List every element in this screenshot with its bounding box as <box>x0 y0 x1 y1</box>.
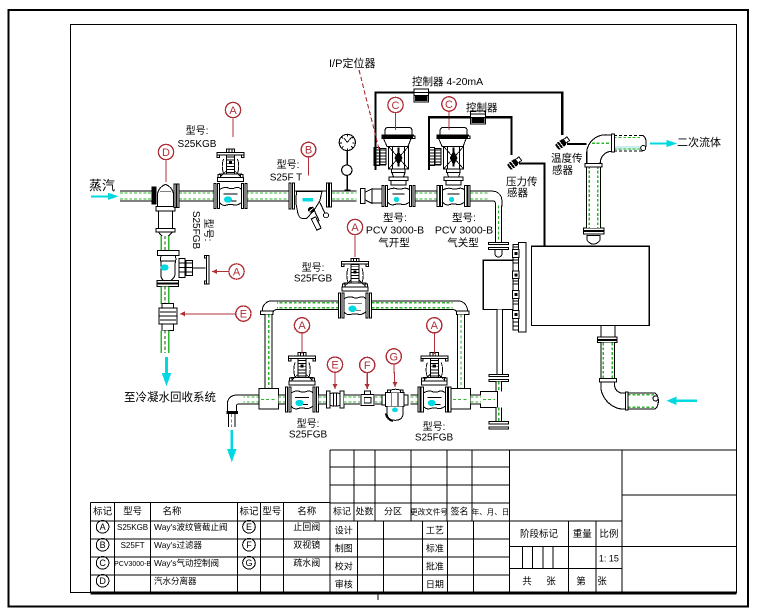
label 型号 S25FGB rotated <box>190 211 215 250</box>
wire main pipe segment 4 <box>332 191 357 201</box>
svg-text:控制器 4-20mA: 控制器 4-20mA <box>412 75 483 88</box>
svg-text:张: 张 <box>597 577 607 588</box>
svg-text:重量: 重量 <box>573 528 593 540</box>
wire lower line segment 2 <box>319 395 328 404</box>
condensate outlet arrow 1 <box>162 357 172 386</box>
svg-text:S25FGB: S25FGB <box>289 430 328 441</box>
riser neck into header <box>495 250 502 258</box>
wire main pipe segment 6 <box>471 191 493 201</box>
wire branch pipe below check valve <box>161 330 169 353</box>
elbow main line to riser <box>490 191 502 206</box>
svg-text:E: E <box>240 309 247 321</box>
wire bypass pipe left segment <box>275 301 339 310</box>
svg-text:汽水分离器: 汽水分离器 <box>154 576 197 586</box>
angle valve V2 bottom flange pair <box>157 281 179 287</box>
wire main pipe segment 2 <box>179 191 215 201</box>
pressure gauge G1 <box>339 134 355 191</box>
svg-text:双视镜: 双视镜 <box>293 539 320 550</box>
tag circle A bypass valve <box>347 219 362 234</box>
svg-text:日期: 日期 <box>426 580 444 590</box>
leader line G steam trap <box>392 364 397 387</box>
svg-text:S25FT: S25FT <box>121 541 145 550</box>
svg-text:感器: 感器 <box>552 164 573 177</box>
svg-text:年、月、日: 年、月、日 <box>472 507 510 517</box>
temperature sensor TS1 <box>555 136 571 151</box>
wire bypass left vertical pipe <box>265 315 272 389</box>
svg-text:A: A <box>351 222 359 234</box>
svg-text:标记: 标记 <box>239 506 259 518</box>
svg-text:PCV3000-B: PCV3000-B <box>114 561 151 568</box>
heat exchanger HX1 top nozzle flange <box>584 228 604 234</box>
tag circle G steam trap <box>386 349 401 364</box>
wire riser pipe upper <box>495 206 501 244</box>
wire main pipe segment 5 <box>415 191 438 201</box>
big elbow bend <box>585 135 613 167</box>
leader line A bypass valve <box>354 235 356 257</box>
riser tee junction <box>481 392 498 408</box>
svg-text:标记: 标记 <box>333 506 351 517</box>
secondary fluid outlet arrow <box>650 140 677 147</box>
svg-text:S25FGB: S25FGB <box>294 274 333 285</box>
wire lower line segment 4 <box>375 395 386 404</box>
leader line A lower valve right <box>433 333 435 354</box>
heat exchanger HX1 bottom nozzle flange <box>598 337 618 343</box>
svg-text:型号:: 型号: <box>202 219 215 242</box>
title block right section texts <box>520 528 619 588</box>
coupling E2 on lower line <box>326 391 343 408</box>
svg-text:名称: 名称 <box>162 506 182 518</box>
leader line A lower valve left <box>301 333 303 354</box>
heat exchanger HX1 top nozzle <box>587 235 600 244</box>
svg-text:标记: 标记 <box>93 506 113 518</box>
svg-text:型号:: 型号: <box>302 261 325 274</box>
svg-text:C: C <box>99 558 106 568</box>
wire temp sensor stub <box>567 143 587 145</box>
riser flange 2 <box>489 374 509 381</box>
wire HX bottom pipe <box>601 343 615 379</box>
svg-text:校对: 校对 <box>335 561 353 572</box>
title block parts rows <box>96 521 320 588</box>
leader line A main valve <box>232 118 234 137</box>
reducer R1 cone <box>361 189 383 204</box>
controller U1 box <box>414 89 429 102</box>
lower globe valve V6 (A) <box>286 353 319 413</box>
leader line C valve 1 <box>395 113 397 130</box>
wire big elbow vertical pipe <box>587 166 601 228</box>
leader line B strainer <box>308 157 310 176</box>
svg-text:型号: 型号 <box>123 507 142 518</box>
svg-text:A: A <box>298 320 306 332</box>
svg-text:PCV 3000-B: PCV 3000-B <box>366 225 424 237</box>
heat exchanger HX1 tube sheet <box>513 243 527 332</box>
tag circle A separator side valve <box>229 264 244 279</box>
svg-text:至冷凝水回收系统: 至冷凝水回收系统 <box>124 390 216 404</box>
svg-text:G: G <box>390 351 399 363</box>
svg-text:批准: 批准 <box>426 561 444 572</box>
heat exchanger HX1 bottom nozzle <box>601 325 615 337</box>
condensate outlet arrow 2 <box>227 430 237 462</box>
wire pressure sensor line to HX <box>519 164 545 246</box>
wire lower line segment 5 <box>411 395 419 404</box>
wire bypass right vertical pipe <box>458 315 465 389</box>
separator S1 body <box>156 184 175 236</box>
svg-text:1: 15: 1: 15 <box>599 554 619 564</box>
heat exchanger HX1 header box <box>483 260 513 309</box>
control valve CV2 (PCV3000-B air-close) <box>429 128 470 207</box>
wire signal line controller 2 <box>429 117 512 170</box>
angle valve V2 top flange <box>158 250 179 255</box>
leader line I/P positioner <box>359 70 380 151</box>
svg-text:第: 第 <box>576 576 586 588</box>
separator S1 inlet flange <box>151 187 156 205</box>
svg-text:D: D <box>99 576 106 586</box>
svg-text:B: B <box>100 540 106 550</box>
lower line tee left <box>259 389 278 409</box>
sight glass F1 on lower line <box>361 391 374 406</box>
svg-text:共: 共 <box>522 577 532 588</box>
svg-text:张: 张 <box>546 577 556 588</box>
svg-text:D: D <box>162 147 170 159</box>
wire HX bottom horizontal pipe <box>628 393 654 409</box>
leader line A side valve <box>212 269 229 274</box>
svg-text:阶段标记: 阶段标记 <box>520 528 559 540</box>
heat exchanger HX1 shell <box>531 246 649 325</box>
svg-text:设计: 设计 <box>335 525 353 536</box>
tag circle D <box>158 144 173 159</box>
wire branch pipe above check valve <box>161 286 169 304</box>
lower line tee right <box>451 389 470 409</box>
pressure sensor PS1 <box>507 156 523 171</box>
svg-text:型号:: 型号: <box>186 124 209 137</box>
tag circle C controller valve 2 <box>442 97 456 111</box>
wire lower line segment 0 <box>238 395 261 404</box>
controller U2 box <box>471 111 486 124</box>
wire bypass pipe right segment <box>372 301 455 310</box>
wire riser pipe green segment <box>496 382 501 392</box>
svg-text:型号:: 型号: <box>423 420 446 433</box>
HX bottom pipe socket bar <box>625 392 628 410</box>
wire condensate drop pipe 2 <box>228 414 235 427</box>
steam inlet arrow <box>91 193 119 200</box>
svg-text:型号:: 型号: <box>297 417 320 430</box>
lower globe valve V7 (A) <box>418 353 451 413</box>
svg-text:止回阀: 止回阀 <box>293 521 320 532</box>
wire main pipe segment 1 <box>120 191 152 201</box>
leader line F sight glass <box>365 373 370 389</box>
tag circle F sight glass <box>360 357 375 372</box>
svg-text:Way′s波纹管截止阀: Way′s波纹管截止阀 <box>154 522 228 532</box>
svg-text:Way′s过滤器: Way′s过滤器 <box>154 540 203 550</box>
svg-text:S25F T: S25F T <box>270 173 303 184</box>
bypass globe valve V5 (A) <box>339 258 372 318</box>
secondary fluid inlet arrow <box>667 397 698 405</box>
riser flange 1 <box>488 243 508 250</box>
svg-text:G: G <box>245 558 252 568</box>
svg-text:分区: 分区 <box>384 507 402 517</box>
tag circle A lower valve left <box>294 318 309 333</box>
globe valve V1 (A) on main line <box>214 149 247 209</box>
tag circle B strainer <box>301 142 316 157</box>
svg-text:气开型: 气开型 <box>378 236 410 249</box>
wire lower line segment 3 <box>344 395 360 404</box>
svg-text:比例: 比例 <box>599 528 618 540</box>
svg-text:签名: 签名 <box>450 506 468 517</box>
wire big elbow horizontal pipe <box>612 134 642 152</box>
svg-text:E: E <box>331 360 338 372</box>
svg-text:名称: 名称 <box>297 506 317 518</box>
svg-text:型号:: 型号: <box>452 211 476 224</box>
svg-text:A: A <box>431 320 439 332</box>
side handwheel valve V3 <box>179 256 209 284</box>
tag circle E coupling <box>327 357 342 372</box>
svg-text:A: A <box>100 522 106 532</box>
svg-text:控制器: 控制器 <box>466 101 498 114</box>
bypass right elbow collar <box>457 311 470 314</box>
svg-text:更改文件号: 更改文件号 <box>410 507 448 517</box>
bypass elbow left <box>262 301 277 313</box>
title block header texts <box>93 506 317 518</box>
tag circle A main valve <box>225 102 240 117</box>
svg-text:感器: 感器 <box>507 186 528 199</box>
svg-text:I/P定位器: I/P定位器 <box>329 56 375 70</box>
svg-text:F: F <box>364 360 371 372</box>
HX bottom elbow bend <box>599 379 625 410</box>
svg-text:标准: 标准 <box>426 543 444 554</box>
steam trap G1 <box>382 389 408 421</box>
big elbow pipe end cap <box>641 135 647 151</box>
leader line E check valve <box>180 311 236 316</box>
wire lower line segment 6 <box>471 395 481 404</box>
frame bottom center tick <box>377 593 379 600</box>
wire riser pipe mid <box>497 309 502 374</box>
wire lower line segment 1 <box>278 395 286 404</box>
wire branch pipe below separator <box>161 236 169 251</box>
svg-text:型号: 型号 <box>262 507 281 518</box>
svg-text:S25KGB: S25KGB <box>178 139 217 150</box>
svg-text:型号:: 型号: <box>383 211 407 224</box>
angle valve V2 body <box>160 256 176 281</box>
tag circle C controller valve 1 <box>388 97 403 112</box>
svg-text:S25KGB: S25KGB <box>117 523 148 532</box>
riser blind flange <box>489 422 509 429</box>
Y-strainer F1 flange left <box>289 183 294 209</box>
tag circle A lower valve right <box>427 318 442 333</box>
wire riser pipe lower stub <box>496 408 501 422</box>
svg-text:制图: 制图 <box>335 543 353 554</box>
svg-text:S25FGB: S25FGB <box>190 211 201 250</box>
svg-text:型号:: 型号: <box>277 158 300 171</box>
tag circle E check valve <box>236 306 251 321</box>
separator S1 outlet flange pair <box>174 184 179 208</box>
svg-text:工艺: 工艺 <box>426 526 444 536</box>
title block revision header texts <box>333 506 509 590</box>
svg-text:S25FGB: S25FGB <box>415 433 454 444</box>
svg-text:温度传: 温度传 <box>551 152 583 165</box>
Y-strainer F1 flange right <box>326 183 331 207</box>
svg-text:二次流体: 二次流体 <box>677 135 721 149</box>
title block parts table <box>91 450 737 593</box>
svg-text:审核: 审核 <box>335 579 353 590</box>
svg-text:气关型: 气关型 <box>447 236 479 249</box>
svg-text:处数: 处数 <box>355 506 373 517</box>
svg-text:B: B <box>305 145 312 157</box>
svg-text:疏水阀: 疏水阀 <box>293 557 320 568</box>
bypass left elbow collar <box>261 311 274 314</box>
control valve CV1 (PCV3000-B air-open) <box>374 128 415 207</box>
Y-strainer F1 body <box>295 191 329 230</box>
leader line C valve 2 <box>448 111 450 130</box>
wire main pipe segment 3 <box>246 191 290 201</box>
leader line E coupling <box>332 372 337 389</box>
svg-text:A: A <box>233 266 241 278</box>
svg-text:E: E <box>246 522 252 532</box>
svg-text:F: F <box>246 540 252 550</box>
HX bottom pipe end cap <box>653 393 658 409</box>
lower line left elbow down <box>226 395 243 414</box>
wire signal line controller 1 <box>375 93 562 171</box>
leader line D <box>165 160 167 182</box>
svg-text:PCV 3000-B: PCV 3000-B <box>435 225 493 237</box>
svg-text:蒸汽: 蒸汽 <box>89 178 115 193</box>
svg-text:C: C <box>392 100 400 112</box>
bypass elbow right <box>453 301 468 313</box>
svg-text:A: A <box>229 105 237 117</box>
svg-text:Way′s气动控制阀: Way′s气动控制阀 <box>154 558 219 568</box>
check valve V4 (E) <box>159 303 177 330</box>
svg-text:C: C <box>445 99 453 111</box>
